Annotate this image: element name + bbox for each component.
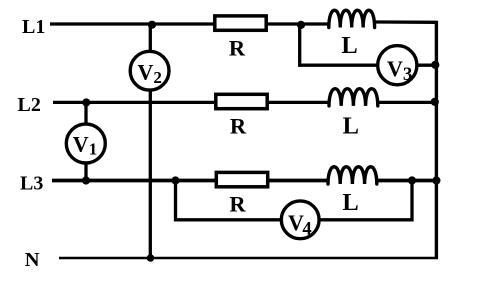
svg-text:L3: L3	[20, 172, 43, 194]
svg-text:N: N	[25, 249, 40, 271]
svg-text:R: R	[229, 192, 246, 217]
svg-text:R: R	[229, 35, 246, 60]
svg-text:R: R	[230, 114, 247, 139]
svg-text:L2: L2	[18, 94, 41, 116]
svg-text:L: L	[341, 32, 357, 59]
svg-text:L: L	[342, 189, 358, 216]
svg-text:L: L	[343, 113, 359, 140]
svg-text:L1: L1	[22, 16, 45, 38]
